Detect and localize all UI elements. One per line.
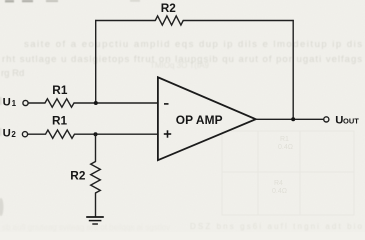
resistor R1 (U1 input) <box>45 99 74 107</box>
svg-text:U: U <box>3 97 11 109</box>
wire top feedback left segment <box>96 20 156 22</box>
wire output <box>256 118 324 120</box>
input terminal U2 <box>22 132 27 137</box>
resistor R1 (U2 input) <box>46 130 75 138</box>
op-amp OP AMP <box>158 77 256 160</box>
svg-text:R2: R2 <box>161 1 177 15</box>
resistor R2 (feedback) <box>155 16 183 25</box>
svg-text:2: 2 <box>11 130 16 139</box>
wire node to R2 ground resistor <box>95 134 97 161</box>
svg-text:R4: R4 <box>274 180 283 187</box>
label U2 <box>3 128 17 140</box>
wire feedback left vertical <box>95 21 97 104</box>
pin - (inverting) <box>164 103 169 105</box>
junction node at inverting input <box>94 101 98 105</box>
junction node at non-inverting input <box>94 132 98 136</box>
svg-text:1: 1 <box>12 99 17 108</box>
label U1 <box>3 97 17 109</box>
svg-text:R2: R2 <box>70 168 86 182</box>
output terminal UOUT <box>324 117 329 122</box>
svg-text:saite of a eoupctiu amplid eqs: saite of a eoupctiu amplid eqs dup ip di… <box>24 39 362 50</box>
svg-text:sb aufl gnuteag sviteag artt o: sb aufl gnuteag sviteag artt ot beilqqs … <box>2 223 170 232</box>
svg-text:0.4Ω: 0.4Ω <box>272 188 287 195</box>
svg-text:R1: R1 <box>280 136 289 143</box>
wire R1 to non-inverting input <box>75 133 158 135</box>
junction node at output <box>291 117 295 121</box>
input terminal U1 <box>23 100 28 105</box>
svg-text:OP AMP: OP AMP <box>176 113 223 127</box>
wire top feedback right segment <box>183 20 293 22</box>
svg-text:OUT: OUT <box>343 116 359 125</box>
resistor R2 (to ground) <box>91 162 101 194</box>
wire U2 to R1 <box>28 133 46 135</box>
svg-text:TMIOq 3O T(IA9: TMIOq 3O T(IA9 <box>150 61 210 70</box>
wire U1 to R1 <box>28 102 45 104</box>
svg-text:rg Rd: rg Rd <box>1 68 24 79</box>
wire R1 to inverting input <box>74 102 158 104</box>
wire R2 to ground <box>95 193 97 217</box>
svg-text:0.4Ω: 0.4Ω <box>278 144 293 151</box>
svg-text:R1: R1 <box>52 114 68 128</box>
pin + (non-inverting) <box>164 130 171 137</box>
label UOUT <box>335 114 359 126</box>
svg-text:U: U <box>3 128 11 140</box>
svg-text:R1: R1 <box>52 83 68 97</box>
wire feedback right vertical <box>292 21 294 120</box>
ground <box>86 217 104 224</box>
